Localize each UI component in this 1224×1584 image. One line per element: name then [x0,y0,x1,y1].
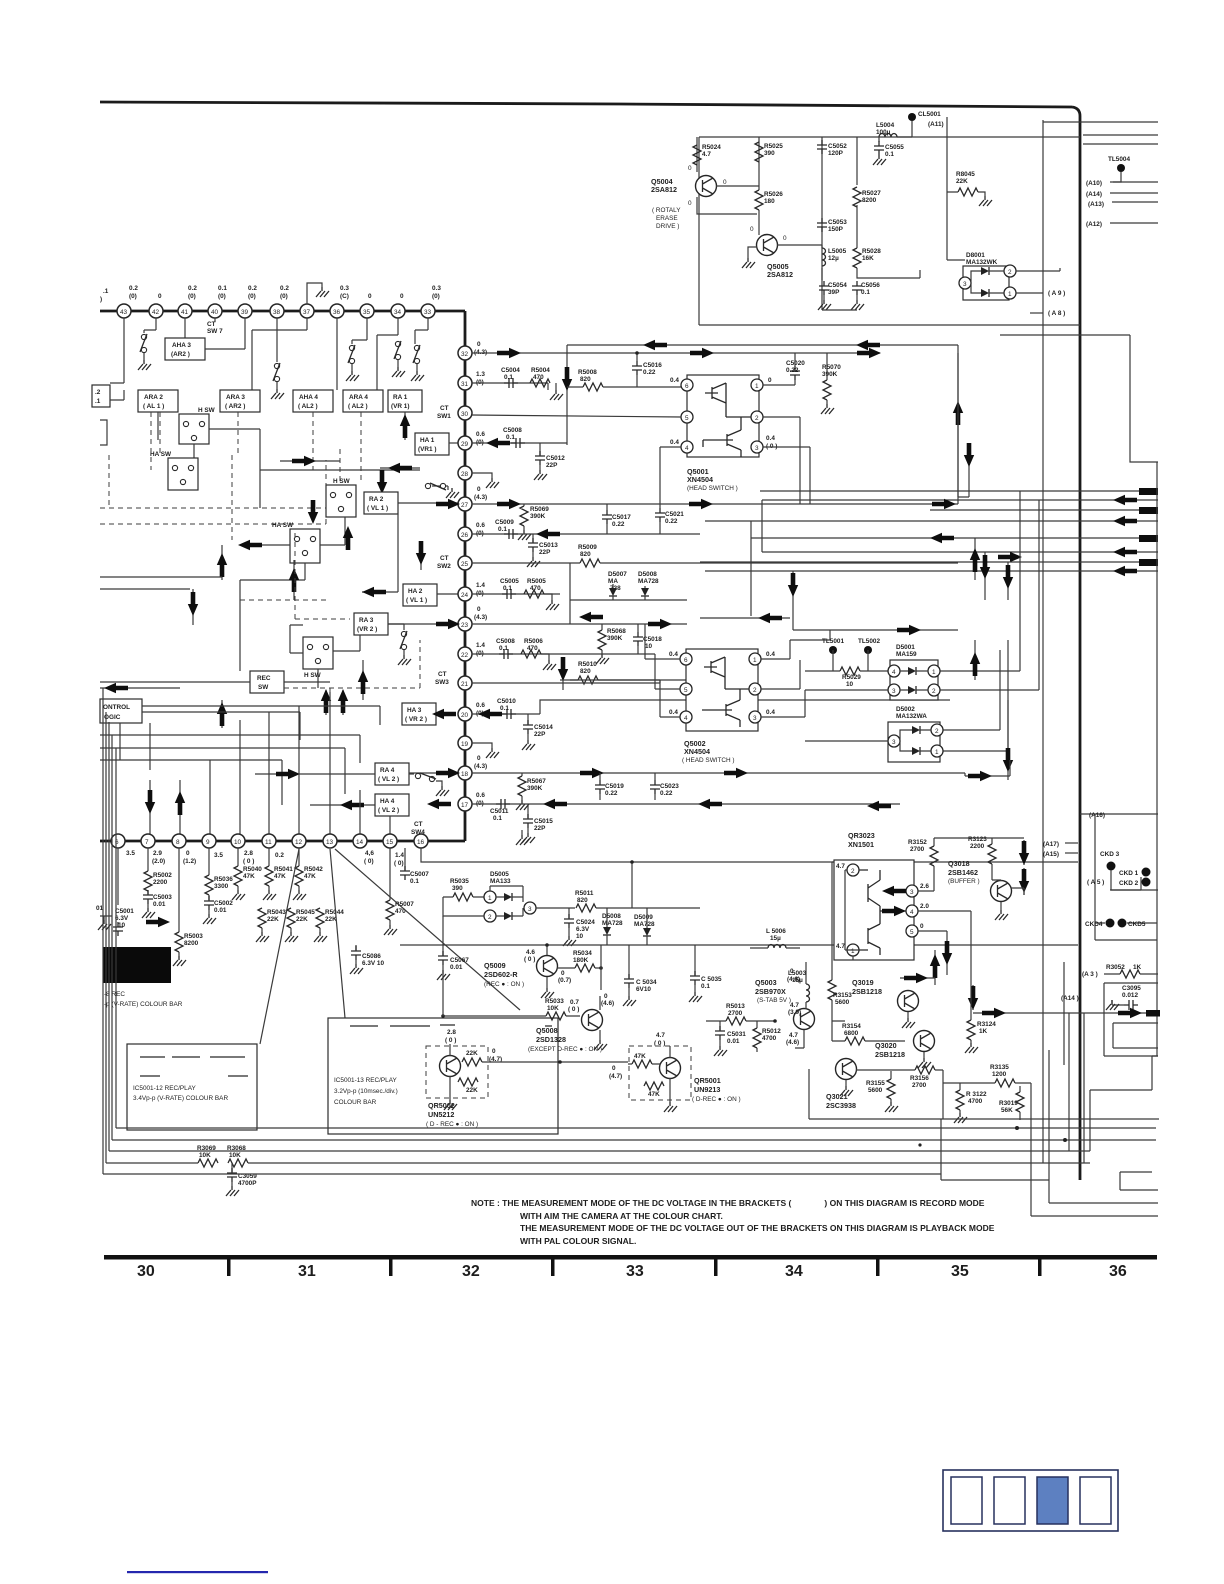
svg-text:(VR1 ): (VR1 ) [418,446,436,453]
wire pin32 row [472,352,880,354]
svg-text:0: 0 [477,486,481,493]
svg-text:R5026: R5026 [764,191,783,198]
svg-text:0.1: 0.1 [503,585,512,592]
resistor R5009 [472,544,958,567]
capacitor C5031 [714,1021,746,1056]
svg-text:3.4Vp-p (V-RATE) COLOUR BAR: 3.4Vp-p (V-RATE) COLOUR BAR [133,1095,228,1102]
svg-text:2700: 2700 [728,1010,743,1017]
svg-text:THE MEASUREMENT MODE OF THE DC: THE MEASUREMENT MODE OF THE DC VOLTAGE O… [520,1223,995,1233]
svg-text:( A 8 ): ( A 8 ) [1048,310,1065,317]
resistor R3122 [954,1083,987,1123]
callout line pin13b [335,849,520,1010]
signal arrow right pin27 c [932,499,956,509]
signal arrow down x973 [968,985,978,1010]
svg-text:22P: 22P [539,549,551,556]
svg-text:MA728: MA728 [634,921,655,928]
svg-text:0.1: 0.1 [504,374,513,381]
svg-text:0: 0 [750,226,754,233]
svg-text:22K: 22K [325,916,337,923]
svg-text:(REC ● : ON ): (REC ● : ON ) [484,981,524,988]
ic pin 40 [208,304,222,318]
signal arrow down x563 [558,657,568,690]
wire verticals x602 x632 [601,862,632,990]
svg-text:UN5212: UN5212 [428,1110,454,1119]
wire y776 right with arrow [965,760,1010,781]
svg-text:2SB1462: 2SB1462 [948,868,978,877]
wire hline y552 with left arrow [762,547,1158,562]
svg-text:HA 3: HA 3 [407,707,422,714]
svg-text:0.6: 0.6 [476,431,485,438]
svg-text:0.4: 0.4 [669,651,678,658]
svg-text:(0): (0) [188,293,196,300]
svg-text:2SA812: 2SA812 [767,270,793,279]
svg-text:( 0): ( 0) [394,860,404,867]
resistor R5033 [441,970,580,1020]
svg-text:R3156: R3156 [910,1075,929,1082]
svg-text:( AL2 ): ( AL2 ) [298,403,318,410]
ic pin 39 [238,304,252,318]
inductor L5004 [876,122,897,137]
resistor QR5002 22K bottom [458,1078,478,1094]
svg-text:CKD5: CKD5 [1128,921,1146,928]
svg-text:47K: 47K [648,1091,660,1098]
svg-text:36: 36 [333,309,341,316]
svg-text:0.22: 0.22 [643,369,656,376]
label Q5002 [682,739,735,764]
wire ARA2 up arrow dashed [151,412,160,470]
svg-text:R5067: R5067 [527,778,546,785]
svg-text:43: 43 [120,309,128,316]
signal arrow right pin27 a [497,499,521,509]
svg-text:C5005: C5005 [500,578,519,585]
inductor L5005 [822,248,847,266]
wire bottom long line y1174 [103,1173,941,1175]
inductor L5006 [750,928,800,948]
box HA1 [415,433,449,455]
svg-text:MA132WA: MA132WA [896,713,927,720]
wire pin40 drop [214,318,216,322]
svg-text:0: 0 [561,970,565,977]
svg-text:CKD 3: CKD 3 [1100,851,1120,858]
diode D5008 [602,908,623,945]
wire corner feed y335 [1000,334,1130,336]
svg-text:R 3122: R 3122 [966,1091,987,1098]
resistor R5043 [256,908,286,942]
svg-text:C5013: C5013 [539,542,558,549]
wire Q3018 collector feeds [992,838,1024,895]
svg-text:2.8: 2.8 [244,850,253,857]
svg-text:180: 180 [764,198,775,205]
ground stub above pin 37 [307,283,329,304]
svg-text:4,6: 4,6 [365,850,374,857]
box H SW upper [179,407,216,458]
svg-text:( ROTALY: ( ROTALY [652,207,681,214]
capacitor C5056 [852,281,880,296]
box HA3 [402,703,436,725]
svg-text:390K: 390K [822,371,838,378]
resistor R3069 [197,1145,218,1167]
svg-text:0.01: 0.01 [727,1038,740,1045]
signal arrow down x1024 b [1019,868,1029,895]
svg-text:18: 18 [461,771,469,778]
svg-text:47K: 47K [274,873,286,880]
signal arrow left pin23 row [579,612,603,622]
resistor R5029 [805,650,888,688]
ic pin 12 [292,834,306,848]
wire hline y571 with left arrow [705,566,1158,576]
svg-text:R5033: R5033 [545,998,564,1005]
wire A11 feed vertical [947,117,965,260]
diode pack D5005 MA133 [443,871,575,922]
wire step corner bottom right c [1120,1056,1158,1190]
box H SW lower [303,637,333,679]
svg-text:R5006: R5006 [524,638,543,645]
ic pin 7 [141,834,165,865]
signal arrow right y630 [793,625,958,635]
svg-text:2: 2 [935,728,939,735]
dashed feed to RA3 [295,530,350,619]
signal arrow right pin27 b [689,499,713,509]
svg-text:1: 1 [932,669,936,676]
capacitor C5034 [623,945,657,1006]
capacitor C5035 [689,945,722,1002]
wire pin35 drop [352,318,367,344]
switch right of pin27 [425,483,459,498]
svg-text:RA 2: RA 2 [369,496,384,503]
wire right area vertical x969 [958,445,969,497]
wire C5010 right up [540,700,950,714]
svg-text:28: 28 [461,471,469,478]
svg-text:AHA 4: AHA 4 [299,394,318,401]
wire Q30 area box [809,1021,1159,1119]
svg-text:10K: 10K [547,1005,559,1012]
signal arrow right pin32 [497,348,521,358]
dashed routing left mid [100,445,340,524]
svg-text:1.4: 1.4 [476,642,485,649]
svg-text:1: 1 [488,895,492,902]
resistor R5003 [173,932,203,966]
svg-text:22K: 22K [296,916,308,923]
wire top right horizontal 1 [1043,121,1158,123]
ic pin 11 [262,834,284,859]
svg-text:C5002: C5002 [214,900,233,907]
svg-text:2200: 2200 [970,843,985,850]
label CT SW4 [411,821,425,836]
wire XN1501 outputs right [918,891,971,1013]
svg-text:2700: 2700 [910,846,925,853]
svg-text:4.7: 4.7 [790,1002,799,1009]
svg-text:SW: SW [258,684,269,691]
svg-text:31: 31 [461,381,469,388]
wire D8001 pin2 to bus [1016,268,1060,271]
svg-text:3.5: 3.5 [214,852,223,859]
svg-text:C5003: C5003 [153,894,172,901]
wire left feeds to control area [100,577,222,589]
svg-text:2.8: 2.8 [447,1029,456,1036]
svg-text:180K: 180K [573,957,589,964]
svg-text:4700P: 4700P [238,1180,257,1187]
ic pin 15 [383,834,404,867]
transistor Q5005 [750,226,793,279]
svg-text:470: 470 [533,374,544,381]
switch below pin34 [392,341,405,377]
svg-text:3: 3 [755,445,759,452]
svg-text:34: 34 [785,1263,803,1280]
resistor R5034 [557,950,603,972]
svg-text:(0): (0) [432,293,440,300]
svg-text:CKD4: CKD4 [1085,921,1103,928]
switch below pin42 [138,334,151,370]
wire pin38 drop switch [276,318,278,362]
svg-text:2: 2 [851,868,855,875]
svg-text:(A17): (A17) [1043,841,1059,848]
svg-text:42: 42 [152,309,160,316]
diode D5009 [634,908,655,945]
transistor Q3018 [948,859,1012,920]
svg-text:(0): (0) [248,293,256,300]
svg-text:15µ: 15µ [792,977,803,984]
svg-text:22K: 22K [466,1087,478,1094]
ic pin 41 [178,304,192,318]
svg-text:10: 10 [645,643,653,650]
connector A10 [1086,180,1158,187]
switch right of RA3 [388,624,411,665]
svg-text:(A 3 ): (A 3 ) [1082,971,1098,978]
wire vertical x567 [566,345,568,445]
ic pin 16 [414,834,428,848]
wire page top border [100,102,1072,107]
box ARA4 [343,390,383,412]
ic pin 22 [458,642,485,661]
capacitor C5002 [203,895,233,924]
svg-text:C5007: C5007 [410,871,429,878]
svg-text:2SA812: 2SA812 [651,185,677,194]
svg-text:ERASE: ERASE [656,215,678,222]
svg-text:C5055: C5055 [885,144,904,151]
svg-text:0.01: 0.01 [214,907,227,914]
svg-text:2: 2 [488,914,492,921]
resistor R5008 [567,369,681,391]
svg-text:20: 20 [461,712,469,719]
svg-text:22K: 22K [956,178,968,185]
box HA4 [375,794,409,816]
wire right step corner x1130 [1130,335,1158,462]
svg-text:22: 22 [461,652,469,659]
svg-text:(HEAD SWITCH ): (HEAD SWITCH ) [687,485,738,492]
resistor QR5002 22K top [462,1048,502,1066]
ic pin 35 [360,304,374,318]
dashed around REC SW [240,600,420,688]
resistor R3155 [866,1071,898,1112]
ground Q5005 emitter [742,247,757,268]
svg-text:R3153: R3153 [833,992,852,999]
svg-text:HA 1: HA 1 [420,437,435,444]
svg-text:C5008: C5008 [503,427,522,434]
wire pin34 drop to ARA4 [377,318,398,390]
svg-text:HA SW: HA SW [272,522,294,529]
svg-text:1: 1 [755,383,759,390]
svg-text:39: 39 [241,309,249,316]
resistor R3052 [1104,964,1158,978]
svg-text:SW2: SW2 [437,563,451,570]
svg-text:( 0): ( 0) [364,858,374,865]
signal arrow up x180 bottom [175,780,185,834]
svg-text:CKD 1: CKD 1 [1119,870,1139,877]
svg-text:390K: 390K [530,513,546,520]
connector A17 [1043,841,1078,848]
svg-text:R3155: R3155 [866,1080,885,1087]
signal arrow right pin18 a [436,768,460,778]
resistor R5025 [755,142,783,162]
svg-text:3: 3 [910,889,914,896]
svg-text:0.22: 0.22 [786,367,799,374]
svg-text:0: 0 [723,179,727,186]
svg-text:2SD1328: 2SD1328 [536,1035,566,1044]
svg-text:10K: 10K [229,1152,241,1159]
svg-text:40: 40 [211,309,219,316]
ic pin 30 [437,405,472,420]
svg-text:3: 3 [753,715,757,722]
svg-text:CT: CT [440,555,449,562]
voltage label QR5001 out [609,1065,622,1080]
svg-text:D5007: D5007 [608,571,627,578]
resistor R5007 [384,900,414,935]
svg-text:R5024: R5024 [702,144,721,151]
svg-text:0.2: 0.2 [129,285,138,292]
svg-text:R8045: R8045 [956,171,975,178]
svg-text:H SW: H SW [333,478,351,485]
signal arrow up x363 to HA3 [358,660,368,700]
svg-text:.1: .1 [95,398,101,405]
ic pin 36 [330,304,344,318]
svg-text:37: 37 [303,309,311,316]
wire x1157 right edge vertical [1156,462,1158,1056]
svg-text:11: 11 [265,839,272,846]
svg-text:10: 10 [118,922,126,929]
wire D5001 pin3 feed [805,690,888,700]
ic pin 8 [172,834,196,865]
svg-text:0.6: 0.6 [476,792,485,799]
signal arrows up pair x326 x343 [321,689,348,715]
voltage labels Q5001 [670,377,777,450]
svg-text:13: 13 [326,839,334,846]
signal arrow left pin17 a [427,799,451,809]
svg-text:REC: REC [257,675,271,682]
signal arrow down x1008 upper [1003,562,1013,600]
ruler tick 2 [389,1259,393,1276]
svg-text:0.1: 0.1 [861,289,870,296]
signal arrow left exit y688 [100,683,180,693]
svg-text:39P: 39P [828,289,840,296]
svg-text:2: 2 [1008,269,1012,276]
wire pin41 drop to AHA3 [184,318,186,338]
signal arrow down x313 [308,500,318,524]
node TL5004 [1108,156,1130,182]
svg-text:C5031: C5031 [727,1031,746,1038]
svg-text:(A13): (A13) [1088,201,1104,208]
wire bottom pin bus [100,840,421,843]
svg-text:6.3V: 6.3V [576,926,590,933]
callout box IC5001-12 [127,1044,257,1130]
diode pack D8001 MA132WK [959,252,1016,300]
navigation page 1 [951,1477,982,1524]
svg-text:( VL 2 ): ( VL 2 ) [378,807,399,814]
wire hline y538 with bar [751,533,1158,543]
svg-text:(A16): (A16) [1089,812,1105,819]
svg-text:MA728: MA728 [638,578,659,585]
svg-text:R3124: R3124 [977,1021,996,1028]
capacitor C5017 [602,504,631,534]
svg-text:D5008: D5008 [638,571,657,578]
ic pin 23 [458,606,487,631]
wire pin43 drop [110,318,124,383]
wire HA SW mid links [240,517,345,580]
signal arrow up x222 [217,545,227,580]
wire main right vertical bus [1072,107,1080,1180]
capacitor C5053 [817,218,847,233]
ic pin 14 [353,834,374,865]
svg-text:Q3020: Q3020 [875,1041,897,1050]
svg-text:MA: MA [608,578,618,585]
ic pin 20 [458,702,485,721]
svg-text:C5017: C5017 [612,514,631,521]
svg-text:820: 820 [577,897,588,904]
svg-text:HA SW: HA SW [150,451,172,458]
wire pin29 row C5008 [472,438,540,448]
svg-text:47K: 47K [243,873,255,880]
svg-text:9: 9 [206,839,210,846]
svg-text:C5008: C5008 [496,638,515,645]
svg-text:0.4: 0.4 [670,439,679,446]
svg-text:2: 2 [753,687,757,694]
svg-text:0.4: 0.4 [670,377,679,384]
svg-text:4700: 4700 [968,1098,983,1105]
wire R5028 row join [822,205,920,310]
signal arrow right pair bottom right [1118,1008,1160,1018]
wire top pin bus [100,310,465,313]
svg-text:R3135: R3135 [990,1064,1009,1071]
svg-text:CKD 2: CKD 2 [1119,880,1139,887]
svg-text:MA728: MA728 [602,920,623,927]
svg-text:16: 16 [417,839,425,846]
svg-text:WITH AIM THE CAMERA AT THE COL: WITH AIM THE CAMERA AT THE COLOUR CHART. [520,1211,723,1221]
resistor R3068 [227,1145,248,1167]
svg-text:WITH PAL COLOUR SIGNAL.: WITH PAL COLOUR SIGNAL. [520,1236,636,1246]
svg-text:XN1501: XN1501 [848,840,874,849]
signal arrow down x1008 lower [1003,700,1013,780]
signal arrow up on x958 [953,401,963,425]
svg-text:ARA 4: ARA 4 [349,394,368,401]
capacitor C5018 [633,624,662,654]
node CKD4 CKD5 [1085,919,1146,929]
svg-text:(A11): (A11) [928,121,944,128]
svg-text:CT: CT [440,405,449,412]
svg-text:47K: 47K [304,873,316,880]
svg-text:R5004: R5004 [531,367,550,374]
svg-text:(A14): (A14) [1086,191,1102,198]
svg-text:(0): (0) [280,293,288,300]
svg-text:4: 4 [685,445,689,452]
svg-text:0: 0 [186,850,190,857]
svg-text:0.22: 0.22 [605,790,618,797]
svg-text:C5024: C5024 [576,919,595,926]
wire x1095 vertical lower [1095,814,1157,940]
svg-text:R5010: R5010 [578,661,597,668]
connector A14 [1086,191,1158,198]
dashed box QR5001 [629,1046,691,1100]
svg-text:0: 0 [477,341,481,348]
capacitor C5009 pin26 [495,519,518,539]
